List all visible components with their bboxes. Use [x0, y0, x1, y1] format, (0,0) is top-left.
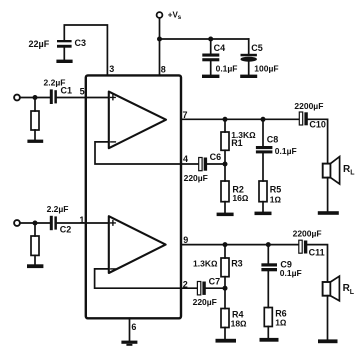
wire — [206, 287, 225, 289]
resistor R4 — [224, 288, 226, 308]
wire pin1 — [57, 222, 109, 224]
ground — [27, 264, 43, 268]
svg-text:C1: C1 — [61, 86, 73, 96]
svg-text:L: L — [350, 170, 355, 177]
node input2 — [33, 221, 38, 226]
svg-text:C10: C10 — [309, 120, 326, 130]
svg-text:1Ω: 1Ω — [270, 194, 282, 204]
node C4 top — [208, 37, 213, 42]
ground — [217, 213, 234, 217]
op-amp A1 — [109, 92, 166, 149]
svg-text:1.3KΩ: 1.3KΩ — [193, 259, 218, 269]
svg-text:0.1µF: 0.1µF — [216, 63, 238, 73]
svg-text:C2: C2 — [60, 225, 72, 235]
node input1 — [33, 95, 38, 100]
ground — [240, 75, 257, 78]
resistor R6 — [264, 308, 272, 327]
svg-text:2200µF: 2200µF — [293, 229, 322, 239]
capacitor C9 — [267, 245, 269, 264]
wire — [224, 150, 226, 164]
svg-text:220µF: 220µF — [193, 297, 217, 307]
capacitor C6 — [199, 158, 202, 171]
wire pin6 — [129, 318, 131, 340]
svg-text:0.1µF: 0.1µF — [275, 146, 297, 156]
resistor (input bias 2) — [31, 236, 39, 255]
svg-text:1: 1 — [79, 215, 84, 225]
svg-text:22µF: 22µF — [29, 39, 50, 49]
ground — [121, 341, 137, 344]
svg-text:C5: C5 — [251, 43, 263, 53]
wire — [308, 119, 328, 163]
svg-text:2.2µF: 2.2µF — [47, 204, 69, 214]
svg-text:C11: C11 — [309, 247, 325, 257]
svg-text:R5: R5 — [270, 184, 282, 194]
svg-text:4: 4 — [183, 154, 188, 164]
capacitor C5 — [248, 39, 250, 54]
resistor R3 — [224, 245, 226, 258]
capacitor C3 — [57, 40, 72, 42]
capacitor C8 — [262, 119, 264, 146]
feedback wire A1 / pin4 — [95, 142, 199, 164]
svg-text:s: s — [178, 14, 182, 21]
ground — [318, 339, 338, 343]
svg-text:0.1µF: 0.1µF — [280, 268, 302, 278]
ground — [56, 60, 72, 63]
wire — [327, 178, 329, 212]
wire Vs rail — [160, 38, 249, 40]
IC U1 outline — [86, 75, 181, 318]
svg-text:100µF: 100µF — [254, 63, 278, 73]
ground — [260, 338, 279, 342]
+Vs terminal — [157, 12, 163, 18]
svg-text:3: 3 — [109, 64, 114, 74]
svg-text:C6: C6 — [210, 152, 222, 162]
svg-text:R3: R3 — [231, 259, 243, 269]
capacitor C1 — [50, 89, 53, 104]
svg-text:1Ω: 1Ω — [275, 318, 287, 328]
svg-text:2200µF: 2200µF — [294, 101, 323, 111]
node C7/R3/R4 — [223, 286, 228, 291]
wire pin7 output1 — [181, 118, 299, 120]
wire — [207, 163, 225, 165]
input terminal J2 — [14, 220, 20, 226]
wire pin5 — [57, 97, 109, 99]
capacitor C2 — [50, 216, 53, 230]
resistor (input bias 1) — [31, 111, 39, 130]
speaker RL 1 — [323, 164, 331, 178]
wire — [327, 296, 329, 340]
svg-text:C7: C7 — [209, 277, 221, 287]
ground — [318, 211, 339, 215]
wire — [34, 130, 36, 140]
ground — [202, 75, 219, 78]
op-amp A2 — [109, 216, 166, 273]
input terminal J1 — [14, 95, 20, 101]
svg-text:L: L — [350, 289, 355, 296]
svg-text:18Ω: 18Ω — [231, 319, 247, 329]
wire C3 to pin3 — [64, 25, 107, 75]
wire — [34, 223, 36, 236]
node R1 top — [223, 117, 228, 122]
wire — [34, 255, 36, 264]
svg-text:C8: C8 — [267, 134, 279, 144]
wire — [63, 48, 65, 60]
node C8 top — [261, 117, 266, 122]
svg-text:9: 9 — [183, 235, 188, 245]
node Vs — [157, 37, 162, 42]
svg-text:16Ω: 16Ω — [232, 193, 248, 203]
svg-text:7: 7 — [183, 110, 188, 120]
resistor R1 — [224, 119, 226, 132]
wire pin8 — [159, 18, 161, 76]
resistor R5 — [259, 181, 267, 202]
svg-text:C4: C4 — [214, 43, 226, 53]
ground — [255, 212, 272, 216]
wire — [20, 222, 50, 224]
capacitor C4 — [210, 39, 212, 54]
svg-text:8: 8 — [161, 65, 166, 75]
svg-text:C3: C3 — [75, 38, 87, 48]
ground — [27, 140, 43, 143]
svg-text:5: 5 — [80, 87, 85, 97]
svg-text:6: 6 — [131, 322, 136, 332]
speaker RL 2 — [323, 282, 331, 296]
node C6/R1/R2 — [223, 162, 228, 167]
svg-text:220µF: 220µF — [184, 173, 208, 183]
wire — [34, 98, 36, 112]
wire — [20, 97, 50, 99]
wire pin9 output2 — [181, 244, 299, 246]
resistor R2 — [224, 164, 226, 181]
svg-text:R1: R1 — [231, 138, 243, 148]
ground — [216, 339, 237, 343]
capacitor C7 — [197, 282, 200, 295]
feedback wire A2 / pin2 — [95, 269, 198, 288]
wire — [307, 245, 327, 282]
node C9 top — [266, 242, 271, 247]
node R3 top — [223, 242, 228, 247]
svg-text:2: 2 — [183, 280, 188, 290]
